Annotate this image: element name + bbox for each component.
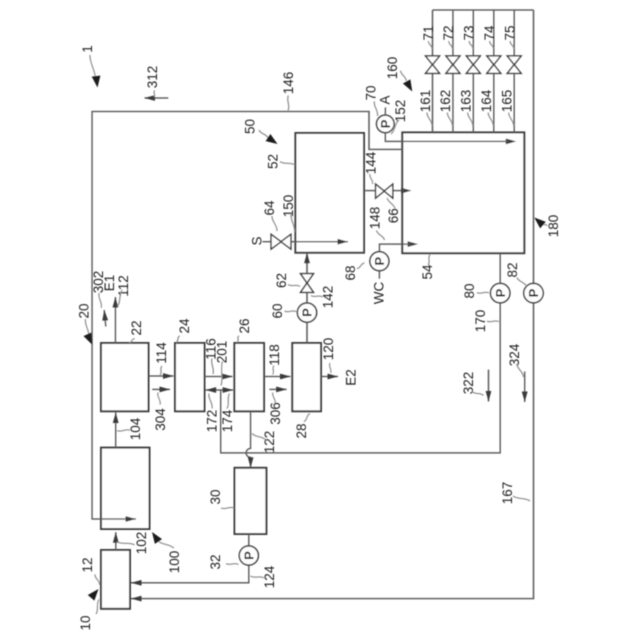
svg-text:30: 30 bbox=[208, 489, 223, 504]
pump P32 bbox=[239, 546, 258, 565]
valve 62 bbox=[301, 283, 314, 292]
svg-text:172: 172 bbox=[205, 410, 220, 433]
wire 122 with hop bbox=[246, 411, 250, 468]
vessel 14 bbox=[101, 448, 150, 529]
svg-text:72: 72 bbox=[441, 25, 456, 40]
svg-text:71: 71 bbox=[421, 25, 436, 40]
svg-text:64: 64 bbox=[262, 200, 277, 216]
svg-text:P: P bbox=[241, 551, 256, 560]
svg-text:142: 142 bbox=[320, 286, 335, 309]
wire 150 S feed bbox=[263, 241, 296, 243]
wire 146 recycle bbox=[92, 112, 402, 520]
svg-text:12: 12 bbox=[80, 557, 95, 572]
svg-text:P: P bbox=[493, 288, 508, 297]
svg-text:66: 66 bbox=[386, 208, 401, 223]
vessel 28 bbox=[292, 343, 321, 411]
gauge P80 bbox=[491, 283, 510, 302]
svg-text:165: 165 bbox=[500, 90, 515, 113]
wire 163 bbox=[472, 10, 474, 132]
wire 165 bbox=[513, 10, 515, 132]
wire 142 bbox=[306, 253, 308, 343]
wire 112 E1 vent bbox=[114, 297, 116, 343]
svg-text:170: 170 bbox=[473, 310, 488, 333]
svg-text:161: 161 bbox=[418, 90, 433, 113]
wire 170 bbox=[221, 253, 501, 453]
svg-text:60: 60 bbox=[270, 303, 285, 318]
vessel 12 bbox=[101, 550, 130, 609]
gauge P70 bbox=[377, 115, 395, 133]
pump P60 bbox=[297, 303, 316, 322]
svg-text:100: 100 bbox=[167, 551, 182, 574]
svg-text:146: 146 bbox=[281, 72, 296, 95]
svg-text:20: 20 bbox=[77, 303, 92, 318]
svg-text:180: 180 bbox=[546, 215, 561, 238]
svg-text:152: 152 bbox=[393, 100, 408, 123]
valve 73 bbox=[466, 65, 480, 74]
wire 124 bbox=[248, 534, 250, 546]
wire manifold header bbox=[433, 9, 534, 11]
svg-text:306: 306 bbox=[268, 402, 283, 425]
wire 116 bbox=[205, 376, 233, 378]
wire 102 bbox=[115, 532, 117, 550]
svg-text:73: 73 bbox=[462, 25, 477, 40]
svg-text:174: 174 bbox=[220, 409, 235, 432]
svg-text:162: 162 bbox=[438, 90, 453, 113]
wire 306 bbox=[269, 388, 286, 390]
svg-text:52: 52 bbox=[266, 154, 281, 169]
svg-text:P: P bbox=[526, 288, 541, 297]
svg-text:120: 120 bbox=[321, 338, 336, 361]
vessel 24 bbox=[175, 343, 205, 411]
svg-text:10: 10 bbox=[78, 615, 93, 630]
svg-text:28: 28 bbox=[294, 423, 309, 438]
vessel 52 bbox=[295, 133, 364, 253]
svg-text:124: 124 bbox=[262, 565, 277, 588]
svg-text:322: 322 bbox=[461, 372, 476, 395]
svg-text:WC: WC bbox=[371, 282, 386, 305]
svg-text:P: P bbox=[372, 257, 387, 266]
svg-text:102: 102 bbox=[134, 532, 149, 555]
svg-text:122: 122 bbox=[262, 431, 277, 454]
wire 144 bbox=[364, 190, 402, 192]
wire 164 bbox=[493, 10, 495, 132]
arrow 322 bbox=[488, 370, 490, 402]
svg-text:112: 112 bbox=[116, 275, 131, 297]
svg-text:75: 75 bbox=[503, 25, 518, 40]
gauge P82 bbox=[524, 283, 543, 302]
svg-text:62: 62 bbox=[274, 273, 289, 288]
arrow 324 bbox=[524, 372, 526, 403]
valve 64 bbox=[271, 234, 281, 249]
svg-text:148: 148 bbox=[367, 207, 382, 230]
valve 74 bbox=[487, 65, 501, 74]
wire 148 bbox=[379, 244, 407, 252]
svg-text:22: 22 bbox=[129, 320, 144, 335]
svg-text:150: 150 bbox=[281, 195, 296, 218]
wire 104 bbox=[115, 413, 117, 448]
svg-text:26: 26 bbox=[237, 318, 252, 333]
svg-text:54: 54 bbox=[420, 264, 435, 280]
svg-text:1: 1 bbox=[80, 45, 95, 53]
wire 118 bbox=[264, 376, 291, 378]
arrow 312 vent bbox=[145, 97, 169, 99]
vessel 54 bbox=[402, 132, 524, 253]
wire 114 bbox=[149, 375, 174, 377]
svg-text:P: P bbox=[378, 119, 393, 128]
vessel 30 bbox=[235, 468, 267, 534]
wire 161 bbox=[432, 10, 434, 132]
vessel 22 bbox=[101, 343, 149, 411]
svg-text:163: 163 bbox=[459, 90, 474, 113]
svg-text:167: 167 bbox=[500, 482, 515, 505]
wire 167 return bbox=[131, 10, 534, 599]
vessel 26 bbox=[234, 343, 264, 411]
wire 152 bbox=[385, 133, 405, 142]
wire 304 bbox=[152, 388, 170, 390]
valve 66 bbox=[376, 184, 385, 198]
svg-text:324: 324 bbox=[507, 343, 522, 366]
svg-text:E2: E2 bbox=[344, 369, 359, 386]
wire A stub bbox=[384, 107, 386, 115]
svg-text:312: 312 bbox=[145, 66, 160, 89]
svg-text:24: 24 bbox=[177, 318, 192, 334]
svg-text:164: 164 bbox=[479, 89, 494, 112]
svg-text:E1: E1 bbox=[102, 275, 117, 292]
svg-text:114: 114 bbox=[154, 342, 169, 364]
valve 72 bbox=[446, 65, 460, 74]
svg-text:201: 201 bbox=[215, 341, 230, 364]
svg-text:68: 68 bbox=[343, 265, 358, 280]
valve 75 bbox=[507, 65, 521, 74]
svg-text:P: P bbox=[300, 308, 315, 317]
svg-text:50: 50 bbox=[243, 119, 258, 134]
wire 120 E2 bbox=[321, 376, 338, 378]
svg-text:82: 82 bbox=[505, 262, 520, 277]
wire 162 bbox=[452, 10, 454, 132]
svg-text:S: S bbox=[250, 236, 265, 245]
svg-text:80: 80 bbox=[462, 283, 477, 298]
svg-text:144: 144 bbox=[363, 151, 378, 174]
svg-text:A: A bbox=[378, 95, 393, 104]
valve 71 bbox=[426, 65, 440, 74]
svg-text:104: 104 bbox=[128, 417, 143, 440]
arrow 302 vent bbox=[104, 310, 106, 327]
svg-text:74: 74 bbox=[482, 25, 497, 41]
svg-text:304: 304 bbox=[153, 408, 168, 431]
wire WC stub bbox=[378, 271, 380, 279]
wire 172 174 splitter bbox=[206, 389, 234, 391]
svg-text:32: 32 bbox=[208, 554, 223, 569]
pump P68 bbox=[370, 252, 389, 271]
whole diagram drawn in readable orientation then rotated -90deg bbox=[0, 0, 1, 1]
svg-text:70: 70 bbox=[364, 85, 379, 100]
svg-text:118: 118 bbox=[267, 344, 282, 366]
svg-text:160: 160 bbox=[385, 57, 400, 80]
